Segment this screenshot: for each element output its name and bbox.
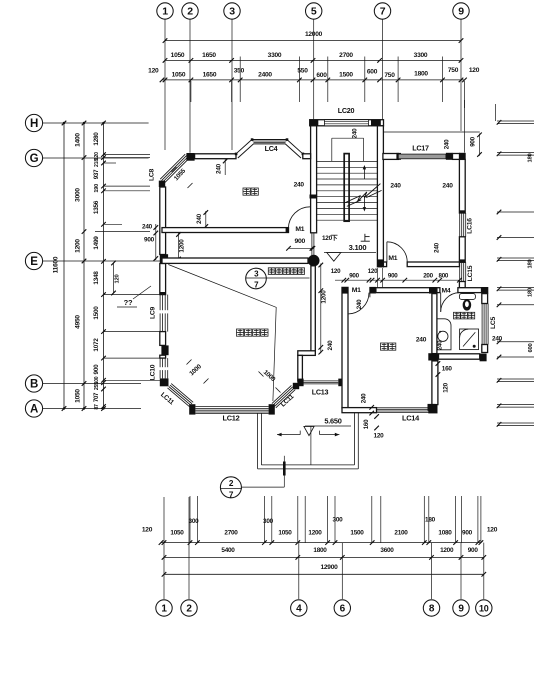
svg-text:1050: 1050 — [171, 52, 185, 59]
window LC9 — [159, 295, 161, 332]
small 120 dim left of wall — [113, 263, 115, 293]
svg-text:3000: 3000 — [75, 188, 82, 202]
stair well landing lines — [332, 137, 364, 139]
svg-text:240: 240 — [142, 224, 153, 231]
svg-text:5.650: 5.650 — [324, 416, 341, 425]
eave line above LC17 — [383, 131, 480, 133]
window cap LC9 top — [160, 292, 166, 295]
window LC11 left diagonal — [171, 384, 193, 403]
detail circle 3/7 railing — [246, 268, 267, 289]
door M4 leaf+arc — [441, 293, 460, 312]
level triangle at 3.100 — [327, 253, 341, 262]
svg-text:240: 240 — [216, 163, 223, 174]
svg-text:H: H — [30, 118, 38, 130]
window LC17 gray band — [398, 154, 446, 159]
svg-text:M1: M1 — [295, 226, 304, 233]
svg-text:1650: 1650 — [202, 52, 216, 59]
svg-text:1200: 1200 — [75, 239, 82, 253]
svg-text:200: 200 — [423, 273, 433, 280]
main E-axis wall to column — [162, 258, 308, 263]
dim 1200/240 along void east wall — [320, 264, 322, 354]
west wall below E — [160, 264, 166, 295]
window cap LC16 bottom — [460, 237, 466, 240]
dim 900 vertical right of room — [479, 134, 481, 156]
axis grid circles top (1 2 3 5 7 9) — [157, 3, 173, 19]
top dimension row 2: 1050 1650 3300 2700 3300 — [165, 59, 461, 61]
svg-text:240: 240 — [442, 183, 453, 190]
axis extension lines below top circles — [164, 19, 166, 150]
dim row 120 900 120 900 200 800 — [335, 279, 459, 281]
svg-text:2: 2 — [229, 479, 234, 488]
stair direction arrows — [363, 167, 365, 179]
svg-text:9: 9 — [458, 6, 464, 18]
section mark line to circle 2/7 — [283, 456, 285, 487]
svg-text:3.100: 3.100 — [349, 243, 367, 252]
balcony bottom wall — [261, 464, 354, 466]
top dimension extension lines down to plan — [239, 57, 241, 103]
svg-text:240: 240 — [356, 299, 363, 309]
svg-text:1650: 1650 — [203, 72, 217, 79]
svg-text:120: 120 — [443, 382, 450, 392]
bay kink marks LC4 — [235, 153, 238, 156]
door M1 leaf and arc upper right room — [386, 242, 388, 262]
corner block at B axis west — [160, 378, 169, 386]
balcony west wall — [257, 413, 259, 469]
wall stub left of door M1 — [383, 262, 386, 267]
svg-text:120: 120 — [331, 268, 341, 275]
bay window LC4 outline — [236, 140, 303, 154]
bedroom bottom wall + window LC14 — [342, 408, 377, 413]
svg-text:1499: 1499 — [93, 236, 100, 250]
svg-text:9: 9 — [458, 604, 464, 615]
dim 1200 left inside — [178, 233, 180, 261]
svg-text:900: 900 — [93, 364, 100, 375]
window LC12 — [195, 406, 268, 408]
svg-text:7: 7 — [380, 6, 386, 18]
svg-text:120: 120 — [148, 68, 159, 75]
svg-text:1200: 1200 — [179, 239, 186, 253]
corner block bedroom top-left — [342, 287, 349, 293]
svg-text:240: 240 — [416, 337, 427, 344]
slope arrow left — [277, 434, 300, 436]
wall end cap at M1 opening — [286, 227, 289, 233]
svg-text:3300: 3300 — [268, 52, 282, 59]
svg-text:2700: 2700 — [224, 530, 238, 537]
block at LC17 right — [446, 153, 453, 160]
svg-text:LC15: LC15 — [467, 265, 474, 281]
svg-text:550: 550 — [297, 68, 308, 75]
west wall segment 2 — [160, 355, 166, 358]
left dimension chain lines — [63, 123, 65, 409]
bottom dimension row 3 total 12900 — [164, 573, 484, 575]
svg-text:LC9: LC9 — [150, 306, 157, 319]
svg-text:4: 4 — [296, 604, 302, 615]
svg-text:1500: 1500 — [93, 306, 100, 320]
svg-text:LC13: LC13 — [312, 388, 329, 397]
svg-text:160: 160 — [363, 419, 370, 429]
bedroom top wall right of bay — [303, 154, 311, 159]
living room void label (CJK ke-ting-shang-kong) — [237, 329, 244, 336]
bedroom east wall below bathroom — [432, 361, 438, 405]
svg-text:900: 900 — [295, 238, 306, 245]
window cap LC15 top — [460, 259, 466, 262]
bathroom bottom wall — [439, 354, 480, 359]
bottom axis extension lines — [163, 543, 165, 599]
void opening diagonal lines — [168, 265, 276, 402]
stair central rail — [344, 154, 349, 222]
svg-text:LC8: LC8 — [149, 168, 156, 181]
svg-text:LC17: LC17 — [412, 143, 429, 152]
left chain intersection dots — [63, 122, 65, 124]
railing note text (CJK) with underline — [268, 268, 275, 275]
top dimension row 3: 120 1050 1650 350 2400 550 600 1500 600 750 1800 750 120 — [162, 79, 465, 81]
toilet — [459, 294, 475, 300]
svg-text:180: 180 — [425, 517, 436, 524]
corner block bedroom bottom-right — [428, 404, 437, 413]
stair break line — [345, 184, 380, 203]
left dim inner chain — [101, 121, 106, 126]
svg-text:M1: M1 — [352, 287, 361, 294]
svg-text:600: 600 — [528, 344, 534, 353]
svg-text:1400: 1400 — [75, 133, 82, 147]
svg-text:900: 900 — [349, 273, 359, 280]
svg-text:2: 2 — [187, 6, 193, 18]
svg-text:120: 120 — [322, 235, 333, 242]
west wall segment — [160, 332, 166, 346]
svg-text:LC10: LC10 — [150, 364, 157, 380]
svg-text:2400: 2400 — [258, 72, 272, 79]
svg-text:240: 240 — [196, 213, 203, 224]
detail circle 2/7 — [220, 477, 241, 498]
left wall of bedroom / west wall — [160, 187, 166, 255]
svg-text:10: 10 — [479, 604, 489, 614]
stair up label (CJK shang) — [364, 234, 366, 241]
black pier on west wall — [161, 345, 168, 355]
svg-text:4950: 4950 — [75, 315, 82, 329]
block LC12 left — [189, 404, 195, 414]
svg-text:240: 240 — [294, 182, 305, 189]
washbasin — [437, 319, 451, 350]
svg-text:7: 7 — [229, 490, 234, 499]
corner block stair right wall bottom — [377, 259, 383, 266]
svg-text:1072: 1072 — [93, 338, 100, 352]
axis grid circles bottom (1 2 4 6 8 9 10) — [156, 600, 172, 616]
svg-text:1280: 1280 — [93, 132, 100, 146]
svg-text:255: 255 — [94, 382, 100, 390]
window LC4 stripes — [253, 140, 287, 142]
window LC15 — [459, 262, 461, 281]
svg-text:1200: 1200 — [440, 547, 454, 554]
svg-text:E: E — [30, 256, 38, 268]
bedroom label (CJK wo-shi) — [243, 188, 250, 195]
svg-text:6: 6 — [340, 604, 346, 615]
svg-text:1: 1 — [161, 604, 167, 615]
svg-text:240: 240 — [444, 139, 451, 149]
svg-text:3600: 3600 — [380, 547, 394, 554]
stair left wall — [311, 126, 317, 233]
svg-text:12900: 12900 — [320, 564, 338, 571]
svg-text:??: ?? — [124, 298, 133, 307]
svg-text:120: 120 — [142, 527, 153, 534]
svg-text:600: 600 — [316, 72, 327, 79]
corner block axis2/G — [186, 153, 194, 161]
svg-text:1200: 1200 — [308, 530, 322, 537]
svg-text:11600: 11600 — [53, 256, 60, 273]
svg-text:1800: 1800 — [313, 547, 327, 554]
bottom extension lines from plan — [189, 496, 191, 543]
window LC11 right diagonal — [272, 385, 292, 403]
svg-text:LC12: LC12 — [222, 413, 239, 422]
bathroom label (CJK wei-sheng-jian) — [454, 312, 461, 319]
block inside LC14 right — [428, 404, 436, 411]
svg-text:1500: 1500 — [339, 72, 353, 79]
balcony east wall — [354, 413, 356, 465]
svg-text:1200: 1200 — [321, 290, 328, 304]
svg-text:LC4: LC4 — [265, 144, 278, 153]
svg-text:218: 218 — [94, 159, 100, 167]
svg-text:B: B — [30, 379, 38, 391]
door M1 arc of bedroom — [288, 207, 310, 229]
corner block axis10 top — [481, 287, 488, 294]
svg-text:120: 120 — [94, 152, 100, 160]
right edge dimension tick lines — [497, 120, 534, 122]
svg-text:1050: 1050 — [172, 72, 186, 79]
svg-text:120: 120 — [487, 527, 498, 534]
svg-text:707: 707 — [94, 392, 100, 402]
svg-text:240: 240 — [352, 128, 359, 139]
svg-text:1800: 1800 — [414, 71, 428, 78]
svg-text:1: 1 — [162, 6, 168, 18]
door M1 lower bedroom leaf+arc — [369, 293, 371, 298]
svg-text:937: 937 — [93, 169, 100, 179]
bottom dimension row 1 — [161, 542, 481, 544]
svg-text:900: 900 — [462, 530, 473, 537]
svg-text:1348: 1348 — [93, 271, 100, 285]
axis grid circles left (H G E B A) — [25, 114, 42, 131]
corner block axis9/G — [459, 153, 466, 160]
wall LC17 to corner — [453, 154, 460, 160]
svg-text:300: 300 — [189, 518, 200, 525]
void east wall upper — [311, 266, 315, 353]
void east wall lower (axis4) — [298, 355, 303, 381]
svg-text:120: 120 — [368, 268, 378, 275]
left inner chain tick extension lines — [104, 154, 151, 156]
svg-text:240: 240 — [492, 335, 503, 342]
window LC10 — [159, 358, 161, 378]
svg-text:5400: 5400 — [221, 547, 235, 554]
bedroom west wall (axis6) — [342, 287, 348, 407]
svg-text:1050: 1050 — [278, 530, 292, 537]
east wall of bath (axis10) with window LC5 — [482, 294, 488, 304]
corner block at E axis west — [160, 254, 168, 263]
level triangle balcony — [304, 426, 314, 435]
svg-text:1356: 1356 — [93, 200, 100, 214]
svg-text:160: 160 — [442, 366, 453, 373]
east wall stub to bath top — [459, 282, 465, 288]
left dim chain: 1400 3000 1200 4950 1050 — [82, 121, 87, 126]
block LC12 right — [269, 404, 275, 414]
svg-text:240: 240 — [390, 183, 401, 190]
window LC20 — [324, 120, 368, 126]
svg-text:3: 3 — [229, 6, 235, 18]
svg-text:750: 750 — [384, 72, 395, 79]
window LC16 — [459, 213, 461, 237]
block at LC8 lower end — [159, 181, 165, 187]
bottom dimension row 2 — [164, 556, 484, 558]
svg-text:240: 240 — [327, 340, 334, 351]
svg-text:A: A — [30, 404, 38, 416]
svg-text:LC16: LC16 — [467, 218, 474, 234]
svg-text:600: 600 — [367, 69, 378, 76]
svg-text:120: 120 — [115, 275, 121, 284]
balcony center line — [310, 426, 312, 464]
svg-text:240: 240 — [360, 393, 367, 403]
bathroom west wall — [432, 294, 437, 354]
stair treads — [317, 160, 378, 162]
bedroom interior dim 240 vertical top — [224, 160, 226, 176]
svg-text:180: 180 — [528, 260, 534, 269]
svg-text:300: 300 — [333, 517, 344, 524]
svg-text:1050: 1050 — [170, 530, 184, 537]
svg-text:2100: 2100 — [394, 530, 408, 537]
svg-text:2700: 2700 — [339, 52, 353, 59]
stair wall stub to column — [311, 233, 313, 256]
bedroom bottom wall — [162, 228, 289, 233]
svg-text:5: 5 — [311, 6, 317, 18]
svg-text:G: G — [30, 153, 39, 165]
svg-text:240: 240 — [434, 242, 441, 253]
svg-text:1500: 1500 — [350, 530, 364, 537]
stair right wall — [377, 126, 383, 267]
svg-text:120: 120 — [469, 67, 480, 74]
shower — [460, 329, 479, 350]
svg-text:120: 120 — [374, 433, 385, 440]
svg-text:12000: 12000 — [305, 31, 323, 38]
svg-text:87: 87 — [94, 404, 100, 410]
bedroom dim 240 near left — [205, 211, 207, 228]
top dimension row total 12000 — [165, 40, 461, 42]
svg-text:1050: 1050 — [75, 389, 82, 403]
stair block top wall — [310, 120, 384, 126]
slope arrow right — [320, 434, 340, 436]
room top wall with window LC17 — [383, 154, 399, 160]
svg-text:M4: M4 — [442, 287, 451, 294]
bedroom label lower (CJK wo-shi) — [381, 343, 388, 350]
corner block stair top right — [371, 120, 381, 126]
svg-text:300: 300 — [263, 518, 274, 525]
svg-text:LC5: LC5 — [490, 316, 497, 329]
svg-text:LC20: LC20 — [338, 106, 355, 115]
window cap LC17 left — [396, 153, 401, 160]
svg-text:900: 900 — [388, 273, 398, 280]
east wall of room (axis 9) — [459, 159, 465, 213]
room bottom wall — [407, 262, 459, 267]
svg-text:8: 8 — [429, 604, 435, 615]
svg-text:900: 900 — [144, 237, 155, 244]
corner block axis8 top — [429, 287, 437, 294]
window cap LC9 bottom — [160, 332, 166, 335]
window LC8 diagonal — [160, 154, 185, 179]
svg-text:900: 900 — [468, 547, 479, 554]
corner block stair top left — [310, 120, 319, 126]
svg-text:180: 180 — [528, 288, 534, 297]
void east wall jog horizontal — [298, 351, 316, 356]
east wall segment below LC16 — [459, 237, 465, 262]
svg-text:750: 750 — [448, 67, 459, 74]
svg-text:M1: M1 — [388, 255, 397, 262]
window cap LC16 top — [460, 210, 466, 213]
svg-text:LC14: LC14 — [402, 414, 420, 423]
svg-text:350: 350 — [234, 68, 245, 75]
svg-text:3300: 3300 — [414, 52, 428, 59]
bedroom top wall pieces and M1 opening — [369, 287, 376, 294]
svg-text:2: 2 — [186, 604, 192, 615]
bath top wall right of M4 — [458, 288, 482, 293]
svg-text:800: 800 — [439, 273, 449, 280]
wall end block on stair left wall — [310, 195, 318, 199]
svg-text:190: 190 — [94, 184, 100, 193]
left dim total 11600 — [62, 121, 67, 126]
svg-text:900: 900 — [470, 136, 477, 146]
svg-text:240: 240 — [437, 340, 444, 350]
column at axis 5/E — [308, 255, 320, 267]
left axis lines — [43, 122, 149, 124]
svg-text:1080: 1080 — [438, 530, 452, 537]
svg-text:180: 180 — [528, 154, 534, 163]
window LC13 — [304, 380, 339, 382]
bedroom top wall left of bay — [195, 154, 236, 159]
corner block LC11 right top / B axis — [293, 383, 299, 389]
